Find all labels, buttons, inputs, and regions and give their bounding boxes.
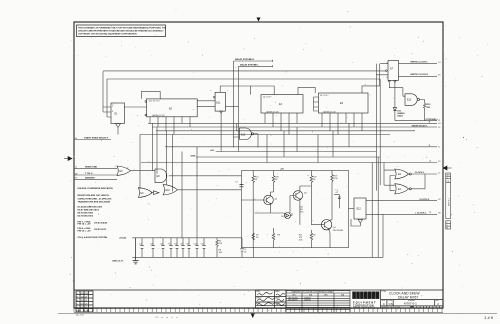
svg-text:E1: E1 <box>438 74 440 76</box>
svg-text:d: d <box>353 293 356 298</box>
transistor Q3 <box>293 191 303 201</box>
svg-text:WRITE CLOCK L: WRITE CLOCK L <box>411 62 429 64</box>
capacitor C3 <box>151 238 155 258</box>
svg-text:QA QB QC QD: QA QB QC QD <box>323 110 336 113</box>
capacitor C2 <box>140 238 144 258</box>
svg-text:D1: D1 <box>75 138 77 140</box>
capacitor C5 <box>169 238 173 258</box>
wire: E1 to E6 <box>124 101 146 116</box>
svg-text:D664: D664 <box>397 115 403 118</box>
wire: GND rail y157 <box>196 156 380 158</box>
svg-text:6: 6 <box>387 77 388 79</box>
transistor Q4 <box>321 220 331 230</box>
wire: feedback bus upper y71.4 <box>103 70 385 72</box>
registration triangle bottom <box>251 313 256 318</box>
nor gate E2a <box>395 169 412 179</box>
nand gate E13b <box>240 128 254 140</box>
IC E1 <box>111 103 124 123</box>
wire: E9 bottom pin stubs <box>322 113 362 135</box>
svg-text:DELAY STROBE L: DELAY STROBE L <box>240 63 260 66</box>
svg-text:14 2 3 6 7: 14 2 3 6 7 <box>263 97 271 99</box>
svg-text:E13: E13 <box>407 99 412 102</box>
wire: E7 bottom-left pin to E13a top input <box>389 80 406 96</box>
wire: G4 output long to analog <box>177 189 241 191</box>
wire: E4 top loop <box>220 86 274 95</box>
wire: E3 out to E8 <box>131 170 156 172</box>
svg-text:T CH H: T CH H <box>85 173 93 175</box>
svg-text:RESISTORS ARE 10K,1/4W,5%: RESISTORS ARE 10K,1/4W,5% <box>78 194 110 197</box>
scan speckles <box>70 9 488 307</box>
resistor R17 <box>310 171 313 225</box>
resistor R19 <box>331 171 334 182</box>
diode D6 <box>285 213 291 219</box>
nand gate E13a <box>405 94 420 106</box>
fold arrow left margin <box>64 157 72 161</box>
svg-text:DRN.: DRN. <box>256 291 261 293</box>
wire: +5V rail y151.5 <box>216 151 376 153</box>
svg-text:CLOCK H: CLOCK H <box>419 199 429 201</box>
IC E6 <box>147 99 198 117</box>
wire: feedback bus upper y79 <box>107 78 380 80</box>
svg-text:+5V: +5V <box>210 150 214 152</box>
capacitor C1 <box>240 238 244 258</box>
wire: E12 outputs CLOCK H and CLOCK L <box>366 201 437 215</box>
svg-text:E1,E4,E6 ARE DEC7493: E1,E4,E6 ARE DEC7493 <box>78 206 103 209</box>
svg-text:D1: D1 <box>438 62 440 64</box>
wire: DELAY STROBE L <box>239 65 273 67</box>
svg-text:DESKEW: DESKEW <box>85 177 96 179</box>
ground symbol <box>133 238 139 264</box>
IC E4 <box>261 95 303 113</box>
svg-text:CIRCUITS ARE PROPRIETARY IN NA: CIRCUITS ARE PROPRIETARY IN NATURE AND S… <box>78 29 164 32</box>
wire: cap feed verticals <box>182 147 197 238</box>
wire: bus1 y123.3 <box>148 122 437 124</box>
wire: +5V cap rail <box>132 237 241 239</box>
wire: E4 bottom pin stubs <box>265 113 297 135</box>
svg-text:GND,C2,T1: GND,C2,T1 <box>112 260 124 262</box>
svg-text:14 2 3 6 7: 14 2 3 6 7 <box>320 95 328 97</box>
svg-text:F1: F1 <box>438 120 440 122</box>
wire: Q4 base emitter <box>311 220 332 248</box>
svg-text:QA QB QC QD: QA QB QC QD <box>152 114 165 117</box>
resistor R5 R6 <box>216 238 218 258</box>
wire: Q3 connections <box>290 196 296 214</box>
svg-text:GND: GND <box>191 155 196 157</box>
wire: cap row bottom GND rail <box>132 214 383 257</box>
title strip top edge <box>74 289 443 291</box>
wire: E2 outputs join <box>411 174 437 189</box>
capacitor C6 <box>175 238 179 258</box>
svg-text:3: 3 <box>112 111 113 113</box>
svg-text:l: l <box>376 293 377 298</box>
svg-text:DATE: DATE <box>275 290 280 293</box>
capacitor C10 <box>195 238 199 258</box>
wire: Q2 base <box>242 199 267 201</box>
svg-text:SKEW GND: SKEW GND <box>85 166 97 168</box>
svg-text:DATE: DATE <box>275 296 280 299</box>
capacitor C11 <box>202 238 206 258</box>
wire: E7 Q to diode D11 <box>394 83 396 108</box>
registration triangle top <box>257 18 261 22</box>
svg-text:TRANSISTOR & DIODE CONVERSION: TRANSISTOR & DIODE CONVERSION CHART <box>291 291 335 294</box>
svg-text:+5V,A2: +5V,A2 <box>119 237 127 240</box>
svg-text:ON E1-E4,E6: ON E1-E4,E6 <box>94 221 108 224</box>
resistor R7 lower <box>252 233 255 240</box>
border frame <box>74 22 443 308</box>
bottom paper edge line <box>58 313 497 315</box>
svg-text:F2: F2 <box>438 127 440 129</box>
svg-text:CAPACITORS ARE -.01,MFD,20%: CAPACITORS ARE -.01,MFD,20% <box>78 197 112 200</box>
svg-text:2: 2 <box>112 106 113 108</box>
notice text <box>78 26 167 35</box>
wire: vertical x380.2 <box>379 79 381 185</box>
wire: rail y147.5 <box>165 146 437 148</box>
svg-text:E12: E12 <box>357 208 362 211</box>
wire: exit y143.6 <box>156 130 415 132</box>
wire: vertical x378.2 <box>377 157 379 257</box>
wire: R7 branch vertical <box>252 248 254 258</box>
revision table scribbles <box>76 293 89 317</box>
svg-text:START SKEW DELAY H: START SKEW DELAY H <box>84 137 109 140</box>
svg-text:E2 IS DEC7402: E2 IS DEC7402 <box>78 214 94 217</box>
svg-text:CLOCK L: CLOCK L <box>415 172 425 174</box>
resistor R9 lower <box>310 230 313 248</box>
svg-text:PIN 16 = +5V: PIN 16 = +5V <box>78 230 92 232</box>
resistor R10 <box>252 171 255 248</box>
wire: vertical x103 to E1 pins <box>103 71 111 112</box>
wire: Q2 collector-emitter <box>271 192 274 213</box>
svg-text:H2: H2 <box>438 213 440 215</box>
svg-text:DEC: DEC <box>324 295 329 297</box>
svg-text:DEC: DEC <box>292 295 297 297</box>
wire: START SKEW DELAY H <box>74 139 111 141</box>
IC E11 <box>215 92 225 111</box>
analog one-shot box rails <box>242 171 349 248</box>
inductor L1 <box>334 194 339 208</box>
resistor R8 lower <box>272 228 275 248</box>
svg-text:g: g <box>361 293 364 298</box>
wire: vertical x376.4 E7 to E2b <box>375 64 377 191</box>
svg-text:mlc 4-71: mlc 4-71 <box>76 315 85 317</box>
inverter between G3 G4 <box>154 191 160 195</box>
IC E12 one-shot <box>354 198 366 219</box>
svg-text:IN4009: IN4009 <box>397 112 405 115</box>
svg-text:CS: CS <box>389 302 393 306</box>
wire: vertical drop x233.4 <box>232 61 234 148</box>
svg-text:1.5K: 1.5K <box>334 178 339 180</box>
wire: E13b inputs/output <box>233 123 258 147</box>
fold arrow right margin <box>443 166 452 170</box>
svg-text:QA QB QC QD: QA QB QC QD <box>266 110 279 113</box>
and gate E8 <box>155 169 167 183</box>
title cells <box>381 290 443 308</box>
svg-text:UNLESS OTHERWISE INDICATED:: UNLESS OTHERWISE INDICATED: <box>78 187 114 190</box>
svg-text:PIN 14 = +5V: PIN 14 = +5V <box>78 223 92 226</box>
svg-text:DEC3009B: DEC3009B <box>333 230 344 232</box>
svg-text:WRITE CLOCK H: WRITE CLOCK H <box>411 74 429 76</box>
wire: long line y162.5 exit 2 <box>141 162 437 164</box>
wire: T CH H input <box>74 174 117 176</box>
wire: D6 row <box>255 213 292 216</box>
wire: WRITE CLOCK L out <box>399 62 438 64</box>
svg-text:ON E11,E13: ON E11,E13 <box>94 229 107 231</box>
right margin revision strip <box>446 173 451 229</box>
svg-text:i: i <box>365 293 366 298</box>
svg-text:DELAY M767: DELAY M767 <box>398 296 418 300</box>
or gate E3 <box>117 166 131 175</box>
printed circuit rev boxes <box>411 306 440 308</box>
wire: exit y125 <box>395 120 437 122</box>
wire: E6 right to E11 <box>197 89 220 106</box>
svg-text:1 4 9: 1 4 9 <box>484 315 494 320</box>
svg-text:COPYRIGHT 1970 BY DIGITAL EQUI: COPYRIGHT 1970 BY DIGITAL EQUIPMENT CORP… <box>78 32 137 35</box>
svg-text:E13: E13 <box>241 134 246 137</box>
svg-text:K2: K2 <box>438 199 440 201</box>
wire: WRITE CLOCK H out <box>399 76 438 78</box>
wire: E6 bottom pin stubs to buses <box>150 117 190 135</box>
capacitor C7 on left edge <box>240 185 244 187</box>
signature block <box>256 290 287 308</box>
wire: verticals buses to rails <box>267 123 349 162</box>
capacitor C8 <box>181 238 185 258</box>
wire: E9 left pin stubs <box>314 97 319 111</box>
wire: R19 down to Q4 collector <box>331 182 333 220</box>
capacitor C4 <box>161 238 165 258</box>
svg-text:ON Q 4 A DEC3009 CRYSTAL: ON Q 4 A DEC3009 CRYSTAL <box>78 236 109 239</box>
wire: E11 out to strobe verticals <box>225 105 238 107</box>
nor gate E2b <box>395 184 412 194</box>
or gate G3 <box>138 188 152 198</box>
svg-text:2N3639: 2N3639 <box>304 300 311 302</box>
svg-text:10%: 10% <box>300 212 304 214</box>
svg-text:E10: E10 <box>166 189 171 192</box>
svg-text:14 2 3 6 7 10: 14 2 3 6 7 10 <box>149 101 160 103</box>
transistor & diode conversion chart <box>286 291 350 313</box>
svg-text:DELAY STROBE H: DELAY STROBE H <box>235 58 255 61</box>
svg-text:L2: L2 <box>75 167 77 169</box>
signatures handwriting <box>257 293 285 306</box>
wire: E2 input stubs <box>384 163 395 191</box>
IC E9 <box>318 93 368 113</box>
wire: E6 top loop <box>141 91 160 99</box>
wire: verticals buses down to gate cluster <box>140 123 173 191</box>
wire: vertical x107 to E1 pin <box>107 79 111 117</box>
notice box <box>77 25 166 37</box>
micro box strip along bottom <box>74 308 443 312</box>
wire: E12 inverter loop <box>351 219 360 226</box>
IC E7 <box>388 61 399 81</box>
wire: bus4 y134.5 <box>140 134 390 136</box>
wire: SKEW DELAY L exit y132.8 <box>152 126 437 128</box>
wire: E9-E7 top loop <box>362 64 380 93</box>
svg-text:CORPORATION: CORPORATION <box>353 304 374 307</box>
svg-text:SKEW DELAY L: SKEW DELAY L <box>412 124 429 127</box>
svg-text:2: 2 <box>447 178 448 180</box>
capacitor C9 <box>187 238 191 258</box>
svg-text:E5,E7 ARE DEC7474: E5,E7 ARE DEC7474 <box>78 209 100 212</box>
wire: SKEW GND input <box>74 167 117 169</box>
DEC digital logo <box>352 292 379 310</box>
svg-text:THIS SCHEMATIC IS FURNISHED ON: THIS SCHEMATIC IS FURNISHED ONLY FOR TES… <box>78 26 167 29</box>
svg-text:( STROBE) L: ( STROBE) L <box>425 119 439 121</box>
svg-text:E11: E11 <box>216 102 221 105</box>
wire: E12 input from analog <box>349 207 355 209</box>
wire: vertical drop x238.5 <box>238 66 240 151</box>
svg-text:K1: K1 <box>438 161 440 163</box>
pencil scribble bottom left <box>155 317 178 318</box>
notes text block <box>78 187 114 239</box>
wire: DESKEW input <box>74 178 117 180</box>
or gate G4 <box>163 185 177 195</box>
svg-text:H1: H1 <box>438 123 440 125</box>
svg-text:M767-0-1: M767-0-1 <box>404 302 417 306</box>
E7 Q-bar wedge <box>394 80 397 82</box>
wire: E7 input stubs <box>376 64 388 75</box>
left border zone tags <box>75 62 441 215</box>
wire: G3 out stub <box>151 192 154 194</box>
transistor Q2 <box>264 195 274 205</box>
resistor R16 <box>272 171 275 193</box>
svg-text:5: 5 <box>387 62 388 64</box>
svg-text:i: i <box>357 293 358 298</box>
svg-text:M767-0-1: M767-0-1 <box>448 198 450 206</box>
svg-text:TRANSISTORS ARE DEC3639B: TRANSISTORS ARE DEC3639B <box>78 200 111 203</box>
inverter below E12 <box>358 219 363 223</box>
svg-text:DEC3639B: DEC3639B <box>288 300 298 302</box>
wire: E1 bottom inverter drop <box>117 128 119 135</box>
svg-text:+5V: +5V <box>280 169 284 171</box>
svg-text:J2: J2 <box>438 172 440 174</box>
wire: E11 bottom drop <box>220 111 223 151</box>
svg-text:P2: P2 <box>75 178 77 180</box>
svg-text:10%: 10% <box>299 240 303 242</box>
svg-text:E8 IS DEC7400: E8 IS DEC7400 <box>78 212 94 215</box>
wire: E4-E9 top loop <box>298 87 315 94</box>
inverter below E1 <box>116 123 121 127</box>
wire: DELAY STROBE H <box>233 60 272 62</box>
svg-text:J1: J1 <box>438 147 440 149</box>
wire: E13a output via R13 to STROBE L exit <box>420 100 426 121</box>
svg-text:M2: M2 <box>75 173 78 175</box>
wire: E8 output long <box>169 175 242 177</box>
svg-text:EQUIPMENT: EQUIPMENT <box>353 300 377 304</box>
tiny pin numbers <box>112 62 388 117</box>
svg-text:( CLOCK L: ( CLOCK L <box>416 212 428 214</box>
wire: diode D11 feed <box>393 108 396 111</box>
wire: L1 row into E12 <box>339 207 348 209</box>
wire: vertical x372.2 <box>371 163 373 258</box>
svg-text:a: a <box>372 293 375 298</box>
revision table bottom-left <box>76 291 93 312</box>
